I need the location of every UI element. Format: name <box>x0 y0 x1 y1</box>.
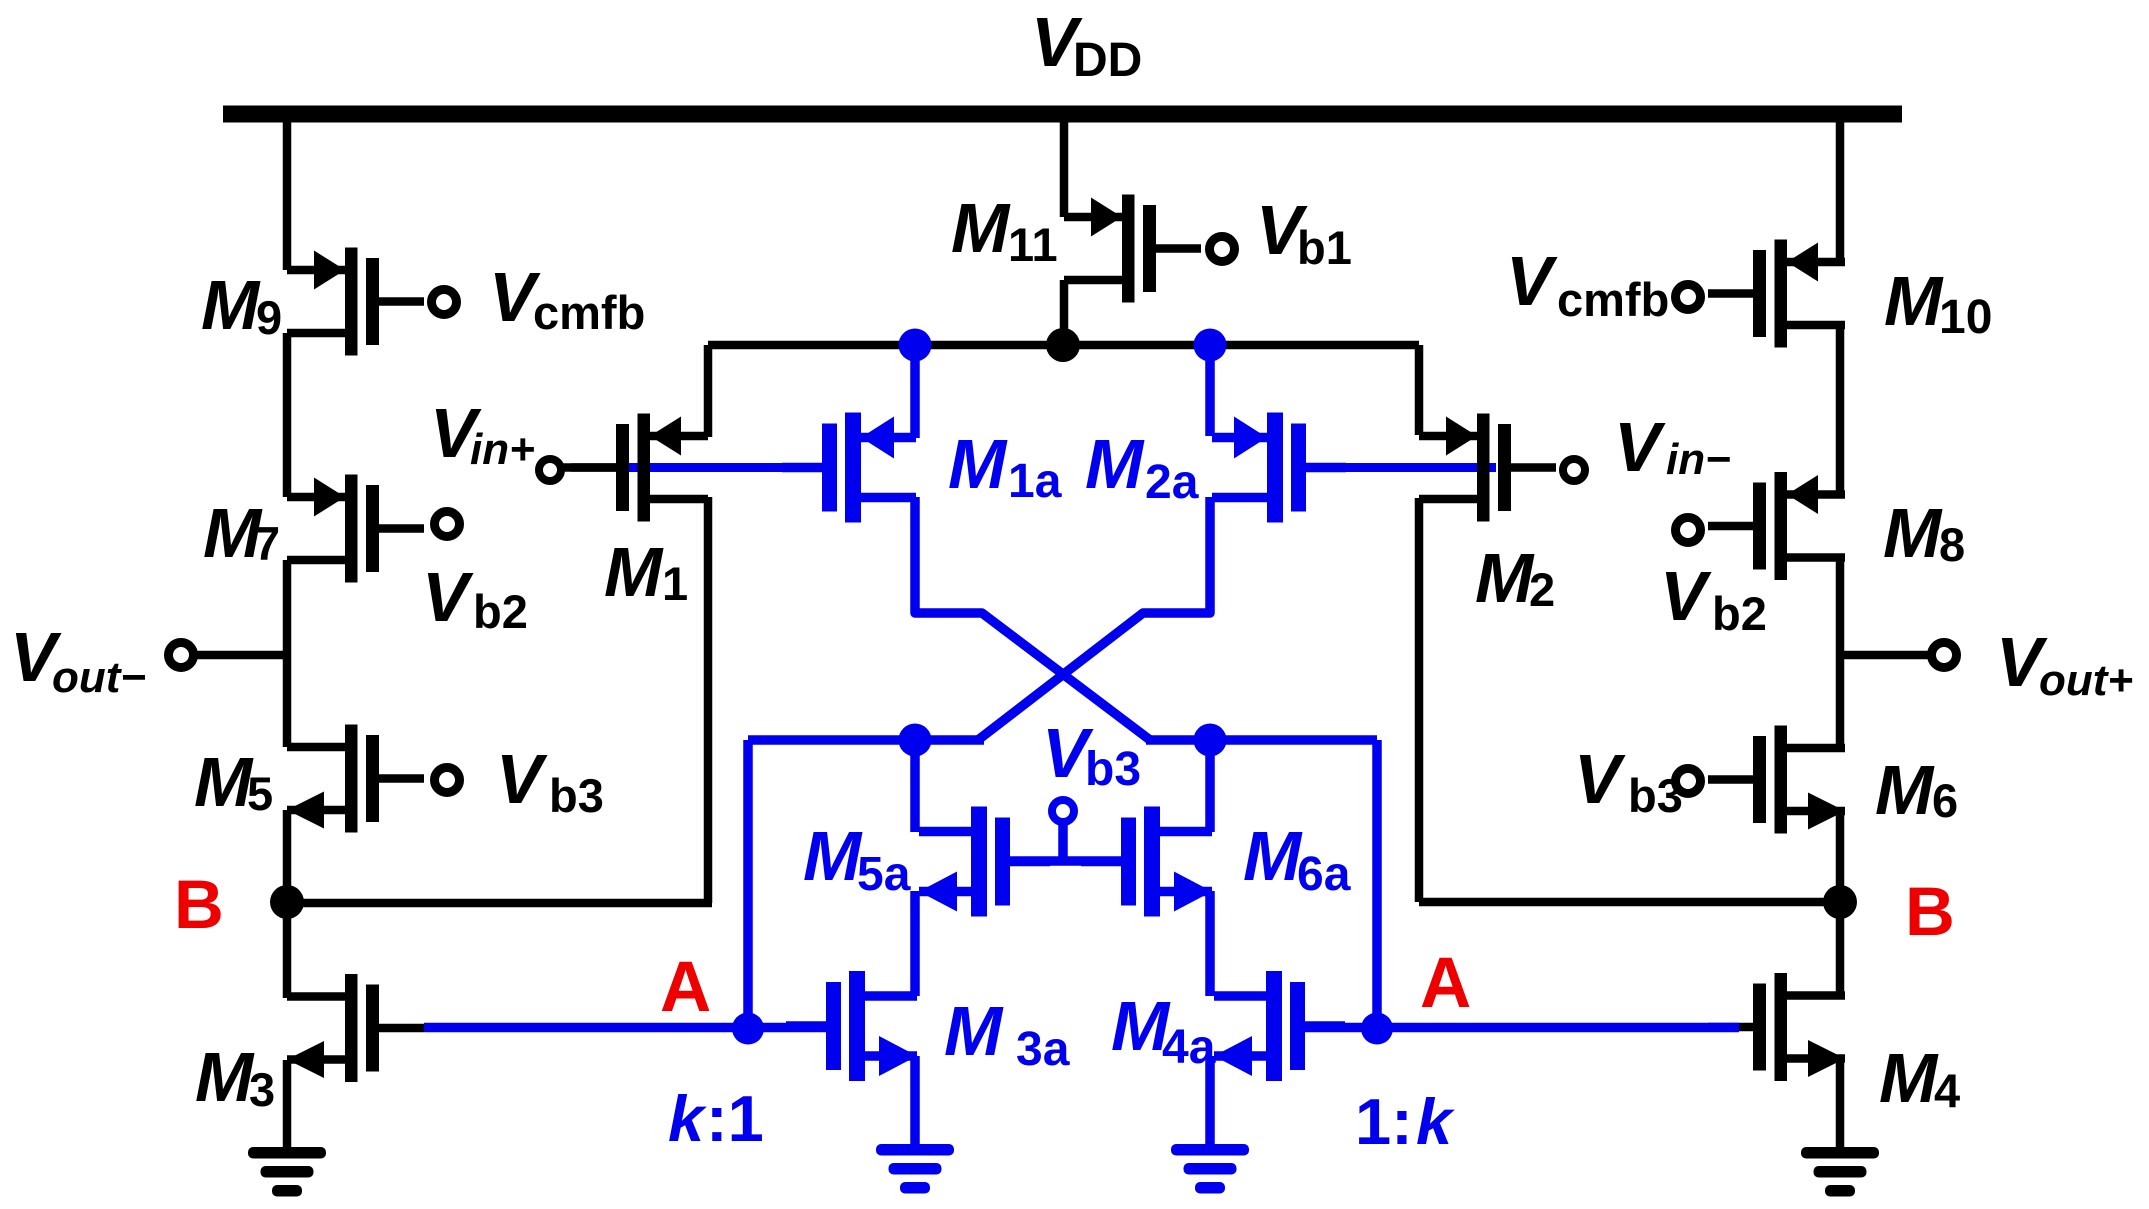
node dot B right <box>1823 885 1857 919</box>
svg-text:M: M <box>194 743 254 821</box>
svg-text:M: M <box>201 266 261 344</box>
svg-text:b2: b2 <box>1712 587 1767 640</box>
wire cascode rail left <box>748 735 984 745</box>
ground M3a <box>876 1144 954 1194</box>
svg-text:1:: 1: <box>1355 1085 1413 1158</box>
svg-text:1a: 1a <box>1008 455 1062 508</box>
ground M3 <box>248 1147 326 1197</box>
transistor M4 <box>1708 973 1845 1081</box>
wire M5a M6a gate rail <box>1008 856 1126 866</box>
terminal Vout- <box>169 643 194 668</box>
svg-text:b2: b2 <box>473 585 528 638</box>
terminal Vin- <box>1563 459 1585 481</box>
terminal Vb3 center blue <box>1052 800 1074 822</box>
transistor M10 <box>1708 240 1845 348</box>
transistor M11 <box>1064 195 1201 303</box>
svg-text:9: 9 <box>256 291 282 344</box>
wire M6a source to M4a <box>1205 891 1215 996</box>
svg-text:M: M <box>195 1038 255 1116</box>
svg-text:1: 1 <box>662 557 688 610</box>
VDD rail <box>223 106 1902 123</box>
wire M1 branch <box>704 345 713 903</box>
wire Vb3 stub <box>1058 824 1068 861</box>
terminal Vcmfb left <box>432 290 457 315</box>
svg-text:M: M <box>944 992 1004 1070</box>
wire node B left <box>287 899 712 908</box>
ground M4 <box>1801 1147 1879 1197</box>
transistor M5a <box>919 807 1050 917</box>
wire A line right <box>1300 1023 1739 1033</box>
transistor M6a <box>1081 807 1212 917</box>
svg-text:5a: 5a <box>857 848 911 901</box>
node dot cascode right <box>1194 724 1227 757</box>
transistor M3a <box>786 971 917 1081</box>
svg-text::1: :1 <box>706 1082 764 1155</box>
svg-text:3: 3 <box>249 1063 275 1116</box>
svg-text:M: M <box>1884 262 1944 340</box>
transistor M1a <box>782 413 916 523</box>
svg-text:M: M <box>1875 751 1935 829</box>
svg-text:M: M <box>951 189 1011 267</box>
svg-text:A: A <box>1420 944 1471 1023</box>
svg-text:10: 10 <box>1939 291 1992 344</box>
svg-text:A: A <box>660 948 711 1027</box>
wire cascode rail right <box>1146 735 1377 745</box>
transistor M8 <box>1708 472 1845 580</box>
svg-text:7: 7 <box>254 517 280 570</box>
wire M4a ground stem <box>1205 1056 1215 1145</box>
terminal Vout+ <box>1932 643 1957 668</box>
node dot M11 drain <box>1046 328 1080 362</box>
svg-text:5: 5 <box>247 767 273 820</box>
terminal Vb1 <box>1210 237 1235 262</box>
wire M2 branch <box>1415 345 1424 902</box>
svg-text:k: k <box>1416 1085 1455 1158</box>
wire gate link M2a to M2 (blue, under black) <box>1301 463 1496 472</box>
svg-text:out+: out+ <box>2039 656 2133 705</box>
svg-text:V: V <box>496 740 548 818</box>
transistor M4a <box>1214 971 1345 1081</box>
svg-text:4: 4 <box>1934 1064 1960 1117</box>
wire gate link Vin+ to M1a (blue, under black) <box>629 463 829 472</box>
svg-text:cmfb: cmfb <box>533 286 645 339</box>
wire M11 source drain <box>1060 110 1069 345</box>
svg-text:in−: in− <box>1666 435 1731 484</box>
wire A line left <box>424 1023 831 1033</box>
wire Vout+ lead <box>1840 651 1930 660</box>
wire center rail <box>708 341 1419 350</box>
node dot A right <box>1361 1013 1393 1045</box>
svg-text:V: V <box>1574 740 1626 818</box>
svg-text:out−: out− <box>52 653 146 702</box>
svg-text:V: V <box>1614 408 1666 486</box>
wire cross couple M2a to left <box>978 497 1210 740</box>
wire M5a drain vertical <box>910 740 920 832</box>
svg-text:M: M <box>604 533 664 611</box>
ground M4a <box>1171 1144 1249 1194</box>
svg-text:M: M <box>1243 817 1303 895</box>
terminal Vb2 left <box>435 512 460 537</box>
svg-text:B: B <box>174 866 224 943</box>
wire Vin+ gate stub <box>559 463 622 472</box>
svg-text:b3: b3 <box>1628 769 1683 822</box>
node dot M1a drain <box>899 329 932 362</box>
wire A branch left <box>743 740 753 1028</box>
wire left column <box>283 110 292 1148</box>
svg-text:3a: 3a <box>1016 1023 1070 1076</box>
svg-text:8: 8 <box>1939 518 1965 571</box>
svg-text:4a: 4a <box>1162 1021 1216 1074</box>
wire cross couple M1a to right <box>915 497 1150 740</box>
terminal Vb3 left <box>435 768 460 793</box>
svg-text:6: 6 <box>1932 774 1958 827</box>
wire A branch right <box>1372 740 1382 1028</box>
wire M3a ground stem <box>910 1056 920 1145</box>
svg-text:b3: b3 <box>549 769 604 822</box>
svg-text:11: 11 <box>1008 218 1058 271</box>
wire Vout- lead <box>196 651 287 660</box>
node dot B left <box>270 885 304 919</box>
wire M5a source to M3a <box>910 891 920 996</box>
svg-text:V: V <box>1506 242 1558 320</box>
svg-text:k: k <box>668 1082 707 1155</box>
wire M6a drain vertical <box>1205 740 1215 832</box>
transistor M3 <box>287 974 424 1082</box>
svg-text:DD: DD <box>1073 34 1142 87</box>
node dot A left <box>732 1013 764 1045</box>
wire right column <box>1836 110 1845 1147</box>
wire node B right <box>1419 898 1840 907</box>
transistor M6 <box>1708 726 1845 834</box>
transistor M1 <box>571 414 708 522</box>
transistor M2 <box>1419 414 1556 522</box>
transistor M5 <box>287 725 424 833</box>
terminal Vcmfb right <box>1676 285 1701 310</box>
svg-text:2: 2 <box>1529 563 1555 616</box>
transistor M7 <box>287 475 424 583</box>
transistor M9 <box>287 248 424 356</box>
svg-text:2a: 2a <box>1145 456 1199 509</box>
node dot M2a drain <box>1194 329 1227 362</box>
wire M2a drain vertical <box>1205 345 1215 436</box>
svg-text:cmfb: cmfb <box>1557 273 1669 326</box>
node dot cascode left <box>899 724 932 757</box>
svg-text:M: M <box>803 817 863 895</box>
transistor M2a <box>1212 413 1346 523</box>
svg-text:M: M <box>1475 539 1535 617</box>
svg-text:M: M <box>1879 1039 1939 1117</box>
wire M1a drain vertical <box>910 345 920 438</box>
terminal Vb3 right <box>1676 769 1701 794</box>
svg-text:M: M <box>1883 494 1943 572</box>
svg-text:6a: 6a <box>1297 848 1351 901</box>
svg-text:M: M <box>1085 425 1145 503</box>
svg-text:b3: b3 <box>1085 743 1141 796</box>
svg-text:in+: in+ <box>470 425 535 474</box>
svg-text:V: V <box>422 558 474 636</box>
svg-text:V: V <box>1660 557 1712 635</box>
svg-text:M: M <box>948 425 1008 503</box>
terminal Vin+ <box>539 459 561 481</box>
svg-text:B: B <box>1905 873 1955 950</box>
terminal Vb2 right <box>1676 518 1701 543</box>
svg-text:b1: b1 <box>1297 221 1352 274</box>
